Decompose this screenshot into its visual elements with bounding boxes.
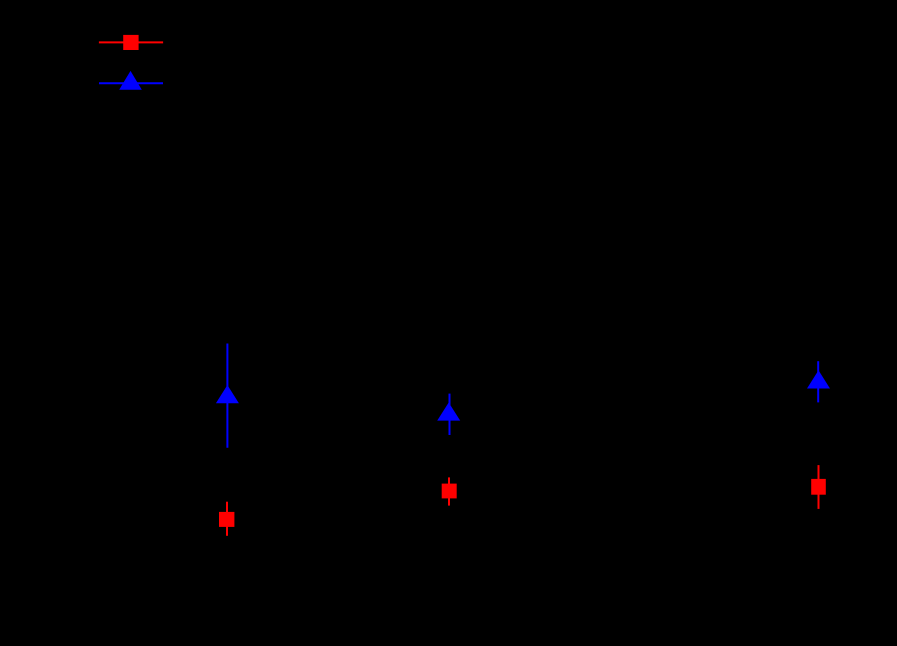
blue point 1 error bar [226,344,228,448]
legend blue line [99,82,163,84]
red point 1 square marker [219,512,234,527]
blue point 1 triangle marker [216,385,239,403]
red point 1 error bar [226,502,228,536]
blue point 2 error bar [449,394,451,435]
legend red line [99,41,163,43]
red point 3 square marker [811,479,826,495]
red point 3 error bar [818,465,820,509]
red point 2 error bar [448,477,450,505]
blue point 2 triangle marker [437,403,460,421]
red point 2 square marker [442,484,457,499]
blue point 3 triangle marker [807,370,830,388]
blue point 3 error bar [817,361,819,402]
legend red square marker [123,35,138,50]
legend blue triangle marker [119,71,142,90]
